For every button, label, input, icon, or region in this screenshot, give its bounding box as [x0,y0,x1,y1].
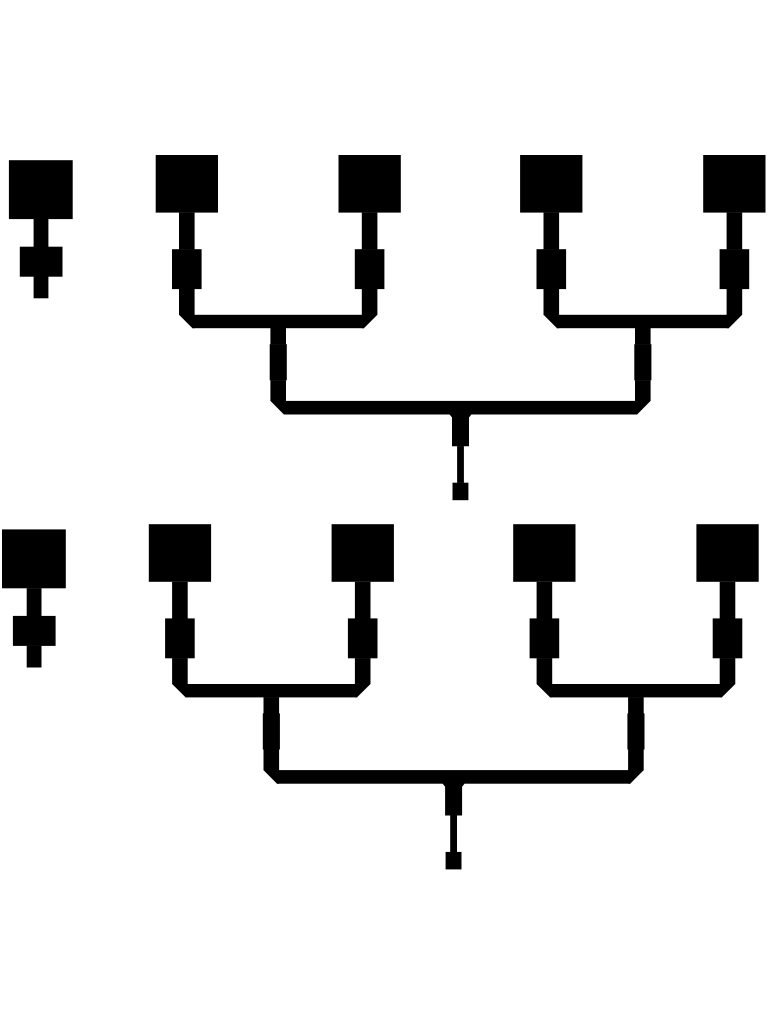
wire BB6 to trunk bar, chamfered bend [628,749,644,783]
buffer BA5 (level-2 clock buffer) [270,344,287,380]
wire BA5 to trunk bar, chamfered bend [270,380,286,414]
clock tree group A (top) [9,155,766,500]
wire branch bar to buffer BA6 [635,328,651,344]
wire FFA3 to buffer BA3 [544,213,560,250]
flip-flop FFB2 (leaf cell) [332,524,394,582]
wire FFB1 to buffer BB1 [172,582,188,619]
buffer BA7 (root driver) with fillets [449,414,471,446]
flip-flop FFB3 (leaf cell) [513,524,575,582]
wire stub below buffer BA0 [34,277,49,299]
buffer BA4 (level-1 clock buffer) [720,249,750,289]
wire FFA4 to buffer BA4 [727,213,743,250]
branch bar joining leaves 3-4 [557,315,729,328]
buffer BB2 (level-1 clock buffer) [348,618,378,658]
branch bar joining leaves 1-2 [186,684,358,697]
flip-flop FFB0 (isolated cell) [2,529,66,588]
trunk bar joining both branches [277,770,630,784]
buffer BB7 (root driver) with fillets [443,784,465,816]
clock tree group B (bottom) [2,524,759,869]
clock source pin (root terminal) [453,483,469,501]
wire branch bar to buffer BB6 [628,697,644,713]
buffer BA3 (level-1 clock buffer) [537,249,567,289]
flip-flop FFA1 (leaf cell) [156,155,218,213]
buffer BB5 (level-2 clock buffer) [263,713,280,749]
wire root driver to clock source pin [450,815,457,852]
wire FFA1 to buffer BA1 [179,213,195,250]
wire FFB3 to buffer BB3 [537,582,553,619]
wire FFB2 to buffer BB2 [355,582,371,619]
wire branch bar to buffer BB5 [264,697,280,713]
wire root driver to clock source pin [457,446,464,483]
buffer BB3 (level-1 clock buffer) [530,618,560,658]
buffer BA2 (level-1 clock buffer) [355,249,385,289]
wire branch bar to buffer BA5 [270,328,286,344]
flip-flop FFB1 (leaf cell) [149,524,211,582]
buffer BB0 [13,616,56,646]
wire BA3 to branch bar, chamfered bend [544,289,560,328]
wire BB1 to branch bar, chamfered bend [172,658,188,697]
clock source pin (root terminal) [446,852,462,870]
flip-flop FFA2 (leaf cell) [339,155,401,213]
buffer BB4 (level-1 clock buffer) [713,618,743,658]
wire BA2 to branch bar, chamfered bend [362,289,378,328]
branch bar joining leaves 3-4 [550,684,722,697]
wire BB3 to branch bar, chamfered bend [537,658,553,697]
wire FFB0 to buffer BB0 [27,588,42,616]
wire FFA0 to buffer BA0 [34,219,49,247]
wire BA4 to branch bar, chamfered bend [727,289,743,328]
buffer BA6 (level-2 clock buffer) [634,344,651,380]
flip-flop FFA0 (isolated cell) [9,160,73,219]
wire BB5 to trunk bar, chamfered bend [264,749,280,783]
buffer BA0 [20,247,63,277]
trunk bar joining both branches [284,401,637,415]
wire BB2 to branch bar, chamfered bend [355,658,371,697]
buffer BA1 (level-1 clock buffer) [172,249,202,289]
buffer BB1 (level-1 clock buffer) [165,618,195,658]
wire BA6 to trunk bar, chamfered bend [635,380,651,414]
wire stub below buffer BB0 [27,646,42,668]
flip-flop FFA4 (leaf cell) [703,155,765,213]
buffer BB6 (level-2 clock buffer) [627,713,644,749]
wire BB4 to branch bar, chamfered bend [720,658,736,697]
wire FFA2 to buffer BA2 [362,213,378,250]
branch bar joining leaves 1-2 [192,315,364,328]
flip-flop FFB4 (leaf cell) [696,524,758,582]
wire BA1 to branch bar, chamfered bend [179,289,195,328]
flip-flop FFA3 (leaf cell) [520,155,582,213]
wire FFB4 to buffer BB4 [720,582,736,619]
